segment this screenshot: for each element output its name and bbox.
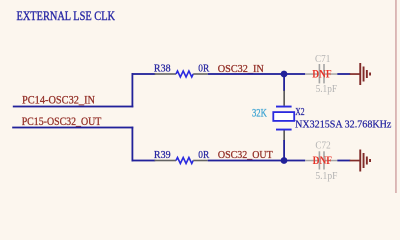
ground bar 1 (top) bbox=[359, 63, 361, 85]
ground bar 3 (bottom) bbox=[366, 157, 368, 165]
resistor R39 zigzag bbox=[176, 158, 193, 164]
capacitor C72 lead right bbox=[325, 160, 337, 162]
resistor R39 pin left bbox=[155, 160, 177, 162]
svg-text:NX3215SA 32.768KHz: NX3215SA 32.768KHz bbox=[295, 119, 391, 131]
wire PC14 horizontal bbox=[13, 106, 134, 108]
svg-text:C71: C71 bbox=[315, 54, 330, 65]
ground bar 1 (bottom) bbox=[359, 150, 361, 172]
wire PC15 dropper down to R39 row bbox=[132, 127, 134, 162]
sheet border right edge bbox=[395, 0, 396, 193]
wire PC14 riser up to R38 row bbox=[132, 73, 134, 107]
wire R38 row right segment to junction bbox=[208, 73, 306, 75]
wire C72 to ground bbox=[337, 160, 350, 162]
resistor R39 pin right bbox=[193, 160, 207, 162]
svg-text:X2: X2 bbox=[295, 106, 304, 118]
svg-text:R38: R38 bbox=[154, 63, 171, 75]
svg-text:EXTERNAL LSE CLK: EXTERNAL LSE CLK bbox=[17, 8, 116, 23]
junction node OSC32_IN bbox=[281, 71, 288, 78]
wire PC15 horizontal bbox=[12, 127, 133, 129]
svg-text:C72: C72 bbox=[315, 141, 330, 152]
capacitor C71 plate right bbox=[323, 64, 325, 83]
crystal X2 pin 2 bbox=[283, 131, 285, 141]
wire R39 row right segment to junction bbox=[208, 160, 306, 162]
ground lead (top) bbox=[350, 73, 360, 75]
capacitor C71 lead right bbox=[325, 73, 337, 75]
svg-text:DNF: DNF bbox=[312, 69, 332, 81]
capacitor C72 lead left bbox=[305, 160, 319, 162]
svg-text:PC15-OSC32_OUT: PC15-OSC32_OUT bbox=[22, 116, 102, 128]
crystal X2 top plate bbox=[276, 106, 292, 108]
svg-text:R39: R39 bbox=[154, 149, 171, 161]
wire crystal down to junction bbox=[283, 140, 285, 161]
svg-text:0R: 0R bbox=[198, 149, 209, 161]
capacitor C72 plate right bbox=[323, 151, 325, 169]
wire R39 row left segment bbox=[132, 160, 156, 162]
svg-text:PC14-OSC32_IN: PC14-OSC32_IN bbox=[22, 94, 96, 106]
wire C71 to ground bbox=[337, 73, 350, 75]
ground bar 2 (top) bbox=[363, 67, 365, 82]
resistor R1 pin right (R38) bbox=[193, 73, 207, 75]
ground bar 3 (top) bbox=[366, 70, 368, 78]
ground lead (bottom) bbox=[350, 160, 360, 162]
wire junction down to crystal bbox=[283, 74, 285, 91]
resistor R1 pin left (R38) bbox=[155, 73, 177, 75]
crystal X2 bottom plate bbox=[276, 129, 292, 131]
svg-text:DNF: DNF bbox=[313, 155, 333, 167]
capacitor C71 plate left bbox=[319, 64, 321, 83]
svg-text:OSC32_OUT: OSC32_OUT bbox=[218, 149, 273, 161]
capacitor C72 plate left bbox=[319, 151, 321, 169]
svg-text:5.1pF: 5.1pF bbox=[315, 171, 337, 182]
wire R38 row left segment bbox=[132, 73, 156, 75]
ground bar 4 (bottom) bbox=[369, 159, 371, 162]
crystal X2 pin 1 bbox=[283, 91, 285, 106]
crystal X2 body bbox=[273, 112, 294, 121]
svg-text:5.1pF: 5.1pF bbox=[316, 84, 338, 95]
svg-text:0R: 0R bbox=[198, 63, 209, 75]
resistor R38 zigzag bbox=[176, 71, 193, 77]
capacitor C71 lead left bbox=[305, 73, 319, 75]
svg-text:32K: 32K bbox=[252, 108, 267, 120]
ground bar 2 (bottom) bbox=[363, 153, 365, 168]
junction node OSC32_OUT bbox=[281, 157, 288, 164]
ground bar 4 (top) bbox=[369, 73, 371, 76]
